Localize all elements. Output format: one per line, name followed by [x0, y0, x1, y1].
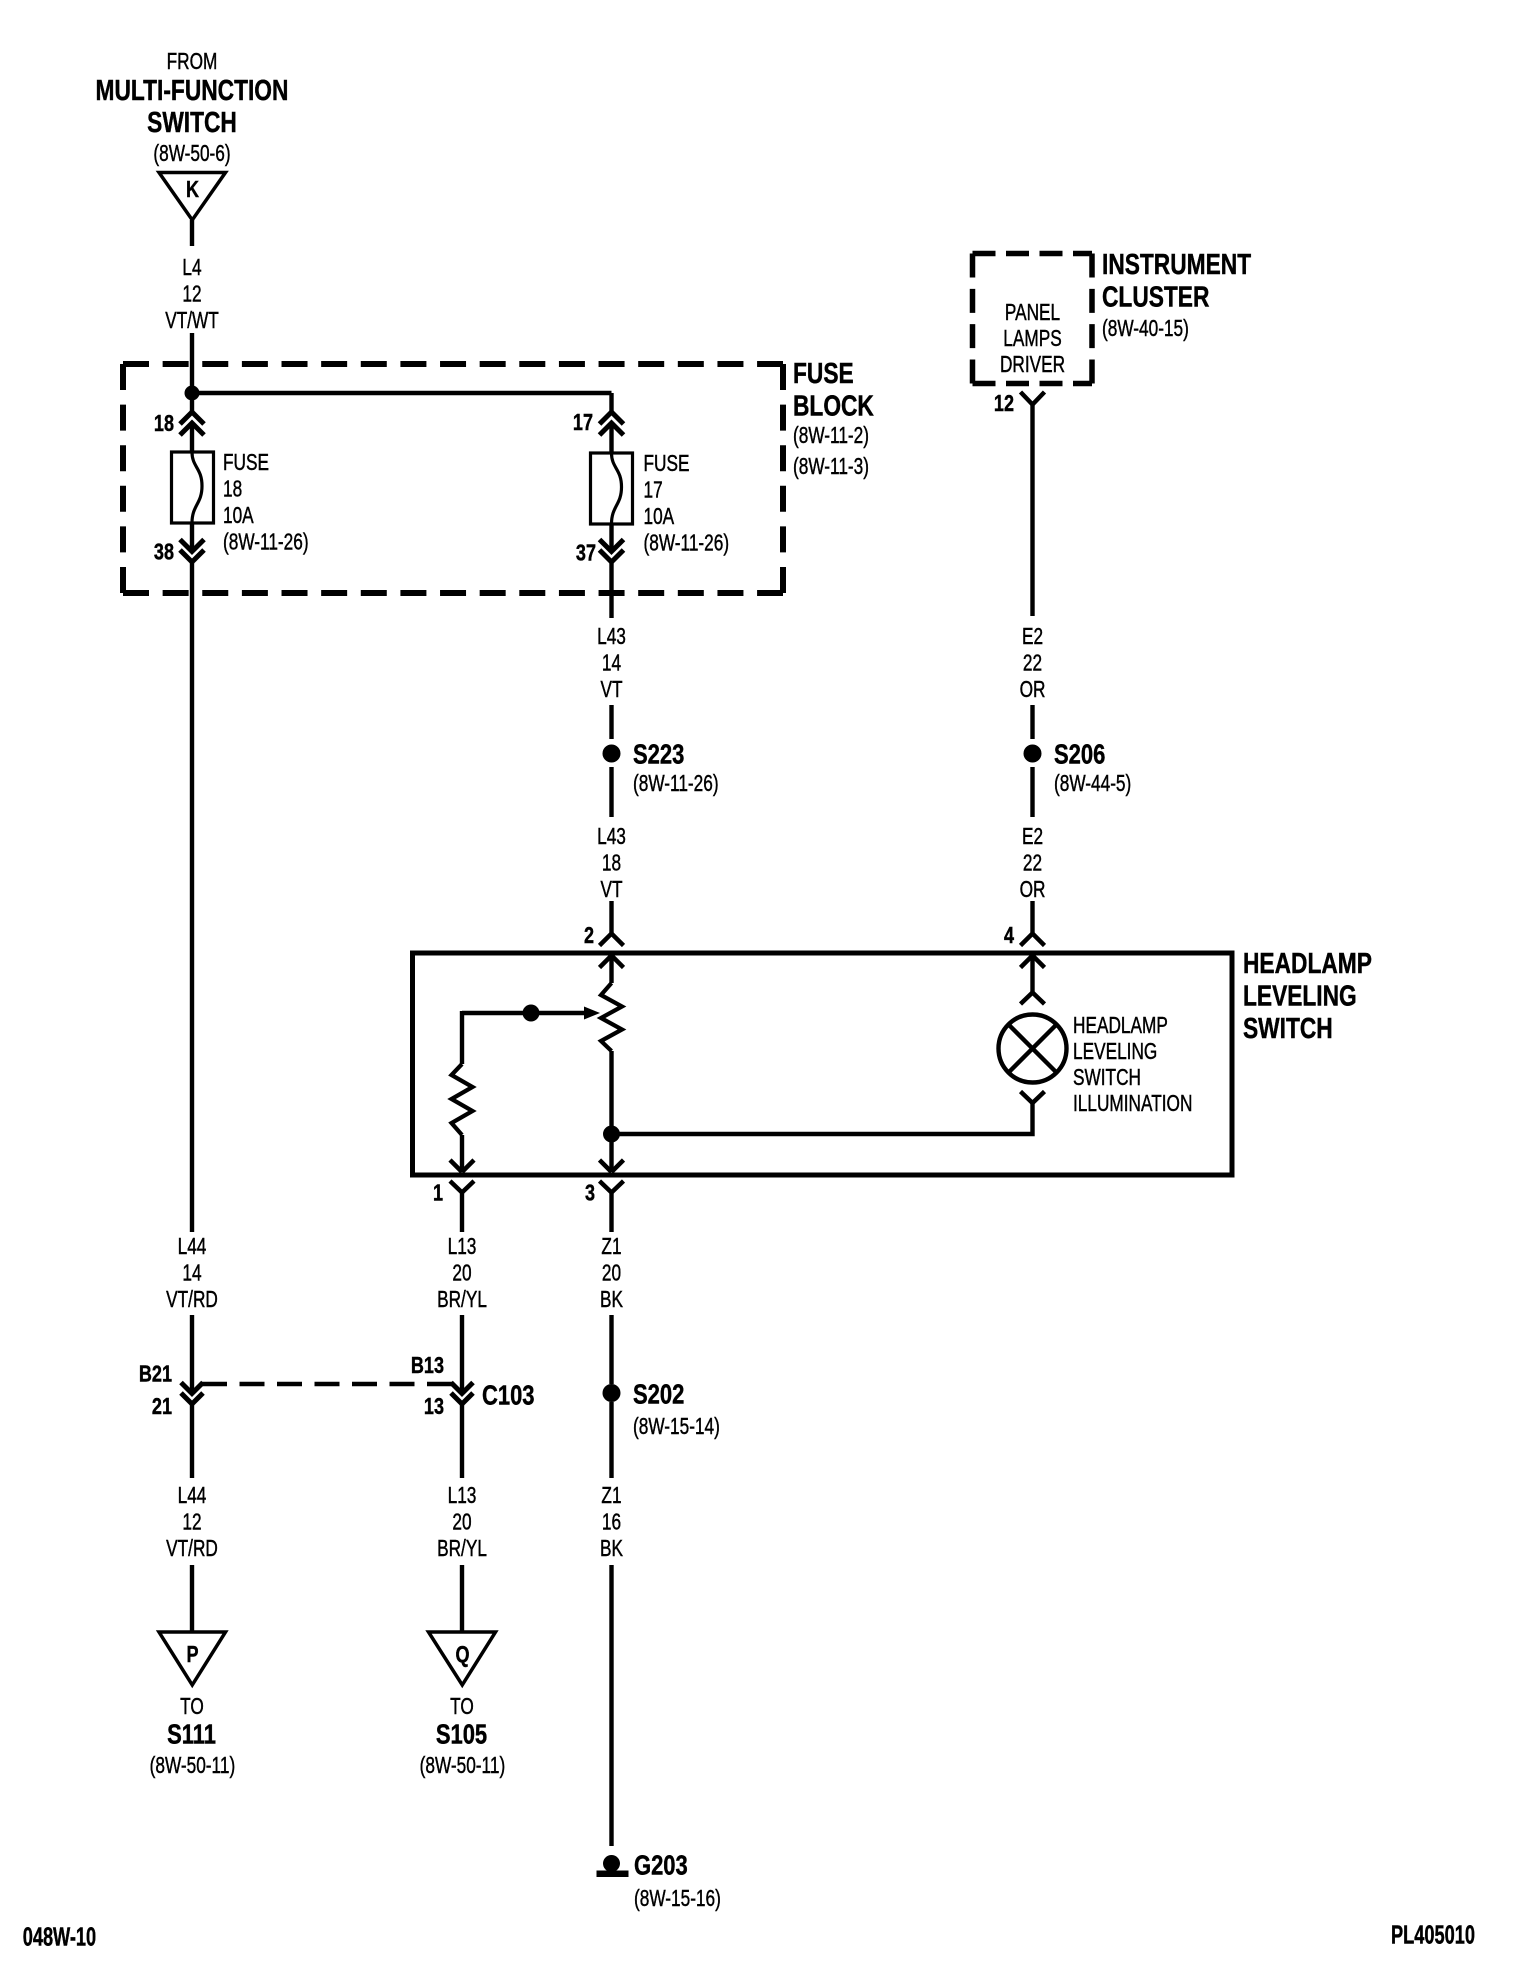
wire L13 from pin 1: [460, 1193, 464, 1233]
ground G203: [597, 1855, 629, 1877]
svg-text:B21: B21: [139, 1361, 172, 1387]
svg-text:(8W-44-5): (8W-44-5): [1054, 772, 1131, 797]
wire L44 to P: [190, 1565, 194, 1632]
svg-text:PANELLAMPSDRIVER: PANELLAMPSDRIVER: [1000, 301, 1065, 378]
wire Z1 to splice S202: [609, 1315, 613, 1384]
svg-text:(8W-50-6): (8W-50-6): [153, 142, 230, 167]
connector chevrons pin 18: [180, 412, 204, 435]
wire jumper drop to pin 17: [609, 393, 613, 412]
wire L43 below fuse block: [609, 562, 613, 618]
svg-text:(8W-11-2)(8W-11-3): (8W-11-2)(8W-11-3): [793, 424, 869, 480]
svg-text:(8W-15-16): (8W-15-16): [634, 1887, 721, 1912]
svg-text:L4314VT: L4314VT: [597, 625, 626, 703]
svg-text:13: 13: [424, 1394, 444, 1420]
wire below fuse 18: [190, 523, 194, 552]
svg-text:3: 3: [585, 1180, 595, 1206]
svg-text:048W-10: 048W-10: [23, 1922, 96, 1951]
svg-text:E222OR: E222OR: [1020, 625, 1046, 703]
wire L4 into fuse block: [190, 333, 194, 412]
node junction at fuse block feed: [185, 386, 200, 401]
svg-text:L412VT/WT: L412VT/WT: [165, 256, 219, 334]
svg-text:PL405010: PL405010: [1391, 1921, 1475, 1950]
svg-text:FUSE1710A(8W-11-26): FUSE1710A(8W-11-26): [644, 452, 730, 556]
svg-text:4: 4: [1004, 923, 1014, 949]
svg-text:(8W-15-14): (8W-15-14): [633, 1415, 720, 1440]
wire E2 to pin 4: [1030, 901, 1034, 934]
svg-text:S206: S206: [1054, 739, 1105, 770]
dashed tie line B21 to C103: [202, 1382, 453, 1386]
svg-text:E222OR: E222OR: [1020, 825, 1046, 903]
connector fork pin 3 below box: [600, 1181, 624, 1193]
resistor in switch: [452, 1064, 473, 1135]
wire jumper to fuse 17: [192, 391, 612, 395]
wire from K triangle: [190, 220, 194, 246]
wire L43 to pin 2: [609, 901, 613, 934]
svg-text:S111: S111: [167, 1719, 216, 1750]
wire Z1 to ground: [609, 1565, 613, 1846]
svg-text:L1320BR/YL: L1320BR/YL: [437, 1484, 487, 1562]
lamp terminal chevron: [1021, 993, 1045, 1005]
wire E2 above splice: [1030, 705, 1034, 739]
splice S202: [603, 1384, 621, 1402]
headlamp leveling switch box: [413, 953, 1233, 1175]
wire pin2 to potentiometer: [609, 956, 613, 984]
wire wiper branch down: [460, 1011, 464, 1064]
svg-text:P: P: [186, 1642, 198, 1668]
connector fork pin 2: [600, 934, 624, 946]
svg-text:L4414VT/RD: L4414VT/RD: [166, 1235, 218, 1313]
wire into fuse 18: [190, 423, 194, 452]
fuse F17 body: [591, 453, 633, 524]
svg-text:Z120BK: Z120BK: [600, 1235, 623, 1313]
svg-text:37: 37: [576, 540, 596, 566]
pin 1 terminal arrow inside switch: [450, 1160, 474, 1172]
fuse F18 body: [172, 452, 214, 523]
svg-text:38: 38: [154, 539, 174, 565]
lamp headlamp leveling switch illumination: [999, 1015, 1067, 1083]
svg-text:FUSEBLOCK: FUSEBLOCK: [793, 356, 874, 422]
wire L13 below C103: [460, 1404, 464, 1478]
connector chevrons pin 17: [600, 412, 624, 435]
svg-text:C103: C103: [482, 1380, 535, 1411]
connector fork pin 4: [1021, 934, 1045, 946]
wire L44 below B21: [190, 1404, 194, 1478]
svg-text:INSTRUMENTCLUSTER: INSTRUMENTCLUSTER: [1102, 247, 1251, 313]
connector chevrons pin 37: [600, 540, 624, 563]
svg-text:MULTI-FUNCTION: MULTI-FUNCTION: [96, 73, 289, 106]
svg-text:G203: G203: [634, 1850, 688, 1881]
connector chevrons pin 38: [180, 540, 204, 563]
svg-text:18: 18: [154, 411, 174, 437]
splice S223: [603, 745, 621, 763]
svg-text:TO: TO: [180, 1695, 204, 1720]
wire L13 to Q: [460, 1565, 464, 1632]
wire Z1 from pin 3: [609, 1193, 613, 1233]
svg-text:S202: S202: [633, 1379, 684, 1410]
pin 4 terminal arrow inside switch: [1021, 956, 1045, 968]
svg-text:17: 17: [573, 410, 593, 436]
wire into fuse 17: [609, 423, 613, 453]
potentiometer wiper arrow: [462, 1007, 600, 1020]
pin 3 terminal arrow inside switch: [600, 1160, 624, 1172]
instrument cluster dashed box: [973, 254, 1093, 384]
svg-text:FROM: FROM: [167, 50, 218, 75]
splice S206: [1024, 745, 1042, 763]
wire L43 below splice: [609, 767, 613, 817]
connector Q triangle: [429, 1632, 496, 1685]
svg-text:K: K: [186, 177, 199, 203]
svg-text:2: 2: [584, 923, 594, 949]
connector fork pin 1 below box: [450, 1181, 474, 1193]
wire resistor to pin 1: [460, 1135, 464, 1172]
connector P triangle: [159, 1632, 226, 1685]
wire below fuse 17: [609, 524, 613, 552]
svg-text:L4412VT/RD: L4412VT/RD: [166, 1484, 218, 1562]
pin 2 terminal arrow inside switch: [600, 956, 624, 968]
svg-text:HEADLAMPLEVELINGSWITCH: HEADLAMPLEVELINGSWITCH: [1243, 946, 1372, 1044]
svg-text:1: 1: [433, 1180, 443, 1206]
wire potentiometer to pin 3: [609, 1051, 613, 1172]
fuse block dashed box: [123, 364, 783, 593]
wire E2 from cluster: [1030, 405, 1034, 617]
svg-text:B13: B13: [411, 1353, 444, 1379]
connector chevrons C103: [451, 1383, 473, 1405]
svg-text:(8W-50-11): (8W-50-11): [420, 1754, 506, 1779]
connector K triangle (from multi-function switch): [159, 173, 226, 221]
svg-text:L1320BR/YL: L1320BR/YL: [437, 1235, 487, 1313]
svg-text:SWITCH: SWITCH: [147, 105, 237, 138]
svg-text:(8W-40-15): (8W-40-15): [1102, 317, 1189, 342]
wire E2 below splice: [1030, 767, 1034, 817]
wire L13 to C103: [460, 1315, 464, 1394]
svg-text:Q: Q: [455, 1642, 469, 1668]
lamp bottom fork: [1021, 1092, 1045, 1104]
wire L43 above splice: [609, 705, 613, 739]
svg-text:S105: S105: [436, 1719, 487, 1750]
wire lamp to junction: [612, 1103, 1033, 1134]
svg-text:S223: S223: [633, 739, 684, 770]
svg-text:(8W-11-26): (8W-11-26): [633, 772, 719, 797]
node lamp return junction: [603, 1126, 620, 1143]
svg-text:TO: TO: [450, 1695, 474, 1720]
svg-text:21: 21: [152, 1394, 172, 1420]
svg-text:Z116BK: Z116BK: [600, 1484, 623, 1562]
svg-text:12: 12: [994, 391, 1014, 417]
connector chevrons B21: [181, 1383, 203, 1405]
wire Z1 below S202: [609, 1402, 613, 1478]
wire panel lamps driver pin 12: [1021, 392, 1045, 405]
potentiometer resistive element: [601, 983, 622, 1051]
svg-text:(8W-50-11): (8W-50-11): [150, 1754, 236, 1779]
svg-text:HEADLAMPLEVELINGSWITCHILLUMINA: HEADLAMPLEVELINGSWITCHILLUMINATION: [1073, 1014, 1192, 1117]
svg-text:FUSE1810A(8W-11-26): FUSE1810A(8W-11-26): [223, 451, 309, 555]
wire L44 long run left: [190, 562, 194, 1232]
wire L44 to B21: [190, 1315, 194, 1394]
node wiper junction: [523, 1005, 540, 1022]
wire pin 4 to lamp: [1030, 956, 1034, 993]
svg-text:L4318VT: L4318VT: [597, 825, 626, 903]
